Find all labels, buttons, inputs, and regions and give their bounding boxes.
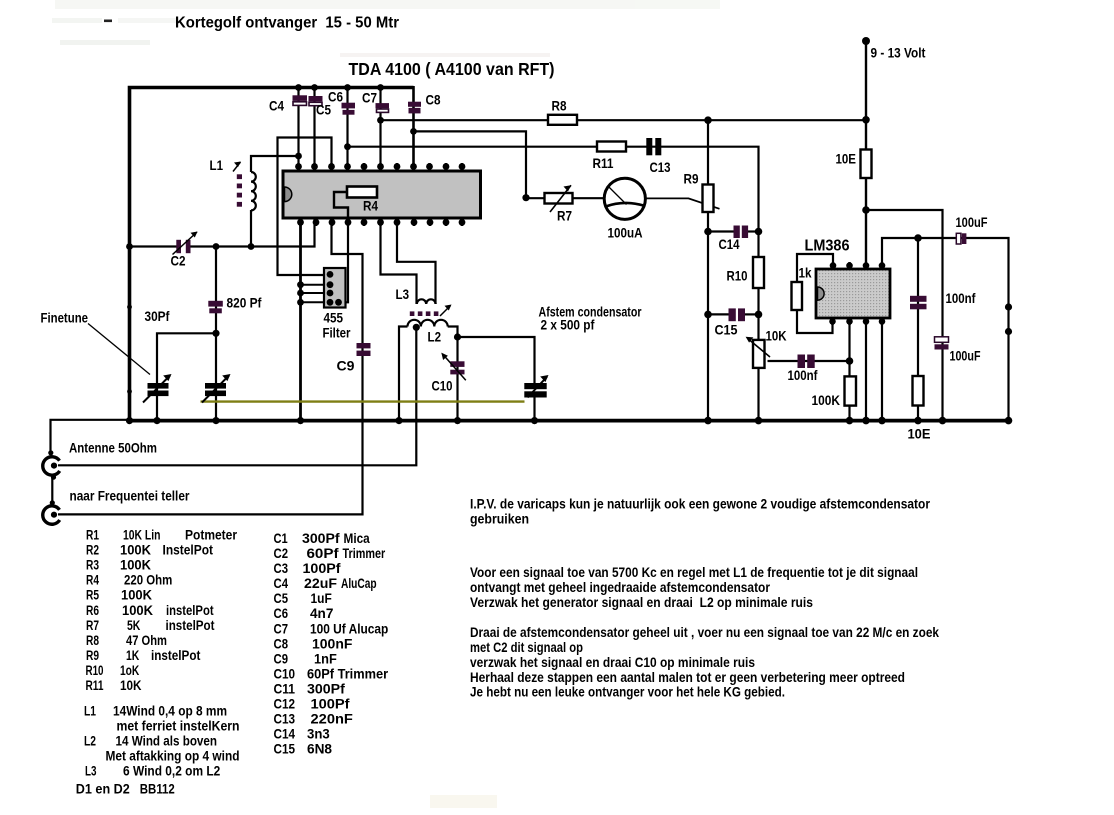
wire: IC pin3 top bridge to 455 filter input: [278, 138, 332, 276]
IC U1 top pins: [295, 163, 465, 171]
filter FL1 455kHz: [323, 268, 351, 341]
svg-text:1uF: 1uF: [311, 591, 333, 607]
wire: tuning node to big variable cap: [458, 337, 535, 383]
svg-text:1k: 1k: [799, 265, 812, 281]
wire: IC pin3 bottom to C9 and frequency counter: [58, 218, 363, 514]
wire: IC pin6 bottom to L3 left: [381, 218, 417, 304]
svg-text:C10: C10: [274, 666, 296, 682]
wire: 1k bracket top: [797, 254, 833, 284]
svg-text:TDA 4100 ( A4100 van RFT): TDA 4100 ( A4100 van RFT): [349, 59, 555, 79]
wire: C2 row right (C2 to IC pin2 bottom): [191, 218, 315, 247]
wire: IC pin1 bottom bus down to ground: [299, 218, 302, 421]
capacitor C5: [309, 96, 332, 118]
wire: L2 tap to antenna: [58, 327, 416, 465]
wire: 30Pf top link: [157, 333, 216, 420]
svg-text:C4: C4: [274, 576, 289, 592]
svg-text:C12: C12: [274, 697, 296, 713]
svg-text:instelPot: instelPot: [166, 603, 214, 619]
svg-text:Draai de afstemcondensator geh: Draai de afstemcondensator geheel uit , …: [470, 624, 939, 640]
svg-text:C6: C6: [274, 606, 289, 622]
variable capacitor (820 side gang): [202, 374, 231, 403]
stray dash top: [104, 20, 112, 23]
svg-text:4n7: 4n7: [310, 606, 333, 622]
svg-text:220nF: 220nF: [311, 712, 354, 728]
supply terminal 9-13V: [862, 37, 926, 61]
IC U1 bottom pins: [297, 218, 465, 226]
svg-text:100nF: 100nF: [312, 636, 353, 652]
wire: IC pin4 bottom to filter output: [339, 218, 349, 302]
wire: R7 left lead: [526, 197, 545, 199]
svg-text:met ferriet instelKern: met ferriet instelKern: [117, 718, 240, 734]
svg-text:Kortegolf ontvanger 15 - 50 M: Kortegolf ontvanger 15 - 50 Mtr: [175, 15, 399, 32]
svg-text:C7: C7: [274, 621, 289, 637]
svg-text:C5: C5: [274, 591, 289, 607]
wire: olive tuning gang link: [201, 400, 525, 402]
wire: bottom bus thin left segment to antenna drop: [51, 420, 130, 454]
capacitor 100uF output top: [956, 214, 988, 244]
svg-text:820 Pf: 820 Pf: [227, 295, 262, 311]
svg-text:C14: C14: [274, 727, 296, 743]
wire: big variable cap to bus: [533, 398, 535, 421]
svg-text:60Pf: 60Pf: [307, 546, 339, 562]
svg-text:LM386: LM386: [805, 238, 850, 255]
svg-text:100uF: 100uF: [950, 348, 981, 364]
capacitor C14: [719, 226, 749, 253]
svg-text:10K Lin: 10K Lin: [123, 528, 161, 544]
wire: bottom ground bus thick: [128, 419, 1010, 423]
svg-text:R7: R7: [86, 618, 99, 634]
svg-text:R7: R7: [557, 208, 572, 224]
svg-text:R11: R11: [593, 155, 614, 171]
connector J1 antenna: [43, 440, 157, 480]
svg-text:10E: 10E: [836, 151, 857, 167]
svg-text:9 - 13 Volt: 9 - 13 Volt: [871, 45, 926, 61]
svg-text:R9: R9: [86, 648, 99, 664]
instructions paragraph 2: [470, 564, 918, 610]
wire: node through C10 to bus: [456, 337, 458, 421]
svg-text:3n3: 3n3: [307, 727, 330, 743]
svg-text:C3: C3: [274, 561, 289, 577]
capacitor C6: [328, 89, 355, 115]
capacitor 100uF lower: [935, 337, 981, 364]
svg-text:InstelPot: InstelPot: [163, 543, 214, 559]
meter M1 100uA: [604, 178, 645, 240]
svg-text:Je hebt nu een leuke ontvanger: Je hebt nu een leuke ontvanger voor het …: [470, 684, 785, 700]
svg-text:6N8: 6N8: [307, 742, 332, 758]
IC U1 TDA4100 body: [283, 171, 481, 218]
svg-text:R5: R5: [86, 588, 99, 604]
wire: C14 leads: [708, 230, 734, 232]
svg-text:30Pf: 30Pf: [145, 308, 170, 324]
svg-text:5K: 5K: [127, 618, 141, 634]
wire: connector link: [51, 477, 53, 503]
svg-text:100Pf: 100Pf: [303, 561, 341, 577]
svg-text:L1: L1: [210, 157, 224, 173]
wire: C5 branch top bus to IC pin2: [313, 86, 315, 171]
svg-text:D1 en D2: D1 en D2: [76, 782, 130, 798]
svg-text:100 Uf Alucap: 100 Uf Alucap: [310, 621, 389, 637]
svg-text:14 Wind als boven: 14 Wind als boven: [116, 733, 218, 749]
label Finetune with pointer: [41, 310, 151, 375]
svg-text:C8: C8: [274, 636, 289, 652]
wire: LM386 pin4 top to 100uF out line: [882, 238, 1009, 421]
svg-text:220 Ohm: 220 Ohm: [124, 573, 172, 589]
potentiometer R7: [545, 185, 573, 223]
wire: C15 leads: [708, 313, 729, 315]
resistor R8: [548, 98, 577, 125]
svg-text:455: 455: [324, 310, 344, 326]
svg-text:R8: R8: [552, 98, 567, 114]
svg-text:instelPot: instelPot: [166, 618, 215, 634]
svg-text:Antenne 50Ohm: Antenne 50Ohm: [69, 440, 157, 456]
wire: C7 branch top bus through pin6 to R4 right: [377, 86, 381, 192]
svg-text:R1: R1: [86, 528, 99, 544]
svg-text:100K: 100K: [120, 558, 152, 574]
svg-text:R11: R11: [86, 678, 104, 694]
svg-text:1K: 1K: [126, 648, 140, 664]
svg-text:C11: C11: [274, 682, 296, 698]
svg-text:Met aftakking op 4 wind: Met aftakking op 4 wind: [106, 748, 240, 764]
capacitor C4: [269, 95, 307, 113]
svg-text:R4: R4: [86, 573, 99, 589]
wire: L1 top to C4 line: [251, 156, 299, 172]
wire: C6 branch top bus to IC pin4: [346, 86, 348, 171]
svg-text:R10: R10: [727, 268, 748, 284]
resistor R10: [727, 257, 765, 288]
svg-text:C8: C8: [426, 92, 441, 108]
svg-text:100K: 100K: [812, 392, 841, 408]
svg-text:verzwak het signaal en draai C: verzwak het signaal en draai C10 op mini…: [470, 654, 755, 670]
wire: L1 bottom to C2 node: [250, 210, 252, 247]
capacitor C8: [408, 92, 441, 114]
wire: LM386 pin3 bottom to bus: [865, 318, 867, 421]
wire: LM386 pin4 bottom to bus: [881, 318, 883, 421]
svg-text:2 x 500 pf: 2 x 500 pf: [541, 317, 595, 333]
wire: 1k bracket bottom: [797, 308, 833, 333]
svg-text:L1: L1: [84, 703, 96, 719]
transformer core (L3/L2): [410, 311, 439, 316]
svg-text:L2: L2: [84, 733, 96, 749]
trimmer capacitor C10: [432, 353, 466, 394]
potentiometer R9: [684, 171, 714, 213]
svg-text:C2: C2: [274, 546, 289, 562]
svg-text:C15: C15: [715, 322, 738, 338]
svg-text:C2: C2: [171, 253, 186, 269]
connector J2 frequency counter: [43, 488, 190, 525]
capacitor C9: [337, 343, 371, 374]
wire: L2 left lead to bus: [399, 327, 408, 421]
svg-text:100Pf: 100Pf: [311, 697, 350, 713]
resistor 100K: [812, 376, 857, 408]
svg-text:Finetune: Finetune: [41, 310, 89, 326]
svg-text:C13: C13: [274, 712, 296, 728]
svg-text:instelPot: instelPot: [151, 648, 201, 664]
svg-text:R9: R9: [684, 171, 699, 187]
wire: C2 row left (bus to C2): [129, 245, 177, 247]
capacitor 820 Pf: [208, 295, 261, 314]
svg-text:C9: C9: [337, 358, 355, 374]
instructions paragraph 1: [470, 496, 930, 527]
wire: R10 / 10K pot vertical: [757, 232, 759, 421]
IC U2 LM386 body: [805, 238, 891, 319]
wire: supply branch to 100uF lower rail: [866, 210, 943, 421]
parts list R/L/C columns: [76, 528, 389, 798]
svg-text:10K: 10K: [120, 678, 142, 694]
svg-text:BB112: BB112: [140, 782, 175, 798]
capacitor 100nf (pot coupling): [788, 355, 818, 384]
svg-text:100nf: 100nf: [788, 367, 818, 383]
svg-text:1oK: 1oK: [120, 663, 140, 679]
wire: 820Pf branch down to trimmer and bus: [215, 247, 217, 421]
svg-text:AluCap: AluCap: [341, 576, 377, 592]
svg-text:14Wind 0,4 op 8 mm: 14Wind 0,4 op 8 mm: [113, 703, 227, 719]
svg-text:C9: C9: [274, 651, 289, 667]
svg-text:47 Ohm: 47 Ohm: [126, 633, 167, 649]
resistor R11: [593, 142, 627, 172]
capacitor C13: [646, 138, 670, 175]
variable capacitor 30Pf (finetune): [143, 308, 172, 403]
svg-text:R4: R4: [363, 198, 378, 214]
wire: R7 to meter: [573, 197, 605, 199]
svg-text:C14: C14: [719, 236, 740, 252]
svg-text:1nF: 1nF: [314, 651, 337, 667]
wire: pot wiper to 100nf to LM386 pin2 line: [768, 360, 850, 362]
svg-text:300Pf: 300Pf: [307, 682, 345, 698]
resistor 1k: [792, 265, 812, 311]
svg-text:60Pf Trimmer: 60Pf Trimmer: [307, 666, 389, 682]
svg-text:met C2 dit signaal op: met C2 dit signaal op: [470, 639, 583, 655]
svg-text:100K: 100K: [120, 543, 152, 559]
wire: left frame bus + top bus: [130, 88, 414, 420]
wire: C8 junction to R7 (down at x=526): [414, 131, 527, 197]
wire: 100nf/10E branch: [917, 238, 919, 421]
svg-text:100nf: 100nf: [946, 290, 976, 306]
svg-text:C1: C1: [274, 531, 288, 547]
svg-text:R3: R3: [86, 558, 99, 574]
svg-text:100K: 100K: [121, 588, 153, 604]
trimmer capacitor C2: [171, 232, 198, 269]
svg-text:Potmeter: Potmeter: [185, 528, 237, 544]
wire: supply rail horizontal (R8 line): [381, 119, 867, 121]
svg-text:Voor een signaal toe van 5700: Voor een signaal toe van 5700 Kc en rege…: [470, 564, 918, 580]
svg-text:C6: C6: [328, 89, 343, 105]
wire: LM386 pin2 bottom to 100K to bus: [848, 318, 850, 421]
svg-text:C4: C4: [269, 98, 284, 114]
svg-text:L3: L3: [85, 763, 97, 779]
variable capacitor afstem 2x500pf: [524, 304, 642, 398]
wire: IC pin7 bottom to L3 right: [397, 218, 436, 304]
svg-text:R2: R2: [86, 543, 99, 559]
svg-text:naar Frequentei teller: naar Frequentei teller: [70, 488, 190, 504]
faint scan artifacts top: [52, 0, 720, 808]
svg-text:22uF: 22uF: [304, 576, 337, 592]
svg-text:Verzwak het generator signaal: Verzwak het generator signaal en draai L…: [470, 594, 813, 610]
IC U2 bottom pins: [829, 318, 885, 325]
capacitor C7: [362, 90, 389, 113]
svg-text:C13: C13: [650, 159, 671, 175]
resistor 10E bottom: [908, 376, 931, 442]
capacitor 100nf right: [910, 290, 976, 309]
potentiometer 10K: [746, 328, 787, 368]
svg-text:10E: 10E: [908, 426, 931, 442]
svg-text:300Pf: 300Pf: [302, 531, 340, 547]
resistor R4 inside U1: [334, 187, 378, 219]
wire: R11/C13 line from C6 down-branch: [348, 147, 759, 232]
svg-text:gebruiken: gebruiken: [470, 511, 529, 527]
wire: 455 filter links to pin1 bus: [301, 284, 331, 286]
wire: meter to R9 wiper: [646, 198, 720, 208]
svg-text:100uF: 100uF: [956, 214, 988, 230]
capacitor C15: [715, 308, 746, 337]
svg-text:6 Wind 0,2 om L2: 6 Wind 0,2 om L2: [123, 763, 220, 779]
svg-text:100K: 100K: [122, 603, 154, 619]
svg-text:ontvangt met geheel ingedraaid: ontvangt met geheel ingedraaide afstemco…: [470, 579, 770, 595]
resistor 10E top: [836, 150, 872, 179]
wire: C8 branch (top bus corner) down to IC pin8: [412, 86, 415, 171]
svg-text:Mica: Mica: [344, 531, 370, 547]
svg-text:R6: R6: [86, 603, 99, 619]
wire: 9-13V supply vertical: [865, 41, 867, 269]
svg-text:I.P.V. de varicaps kun je natu: I.P.V. de varicaps kun je natuurlijk ook…: [470, 496, 930, 512]
svg-text:Filter: Filter: [323, 325, 351, 341]
IC U2 top pins: [830, 262, 886, 269]
svg-text:C7: C7: [362, 90, 377, 106]
svg-text:L2: L2: [428, 329, 442, 345]
svg-text:10K: 10K: [766, 328, 787, 344]
inductor L2 tapped: [408, 320, 448, 345]
svg-text:L3: L3: [396, 286, 410, 302]
wire: C4 branch top bus to IC pin1: [297, 86, 299, 171]
svg-text:R10: R10: [86, 663, 104, 679]
svg-text:C10: C10: [432, 378, 453, 394]
svg-text:Trimmer: Trimmer: [343, 546, 386, 562]
wire: R9 vertical branch from supply line to ground bus: [707, 120, 709, 420]
wire: L2 right to tuning node: [448, 327, 458, 338]
instructions paragraph 3: [470, 624, 939, 700]
inductor L1 with core and trimmer arrow: [210, 157, 256, 210]
svg-text:C15: C15: [274, 742, 296, 758]
inductor L3 with arrow: [396, 286, 452, 316]
svg-text:100uA: 100uA: [608, 225, 643, 241]
svg-text:R8: R8: [86, 633, 99, 649]
